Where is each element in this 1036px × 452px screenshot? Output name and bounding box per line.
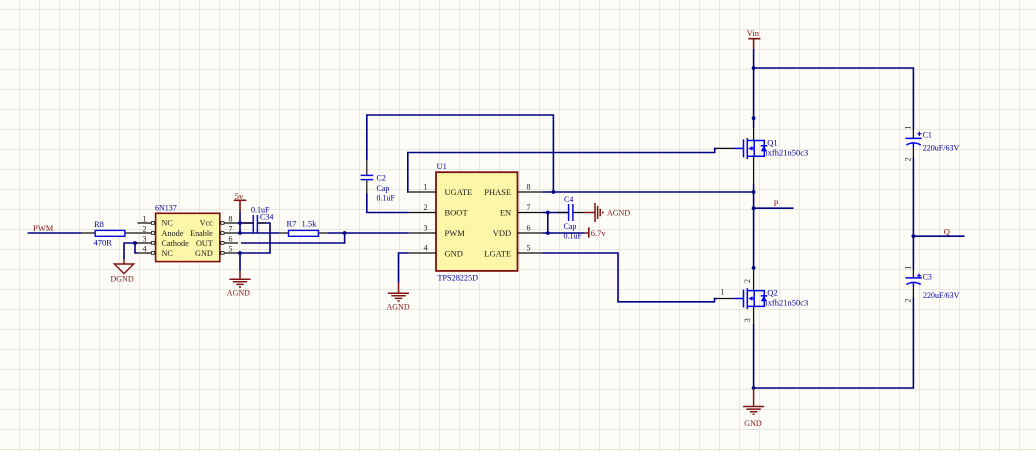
svg-text:6: 6 — [229, 235, 233, 244]
capacitor C1 pin 1 — [903, 126, 913, 139]
junction 5v/Vcc — [238, 221, 242, 225]
optocoupler 6N137 — [155, 203, 220, 261]
wire 5v rail to Vcc and Enable — [239, 212, 241, 234]
transistor Q1 ixfh21n50c3 — [734, 137, 808, 159]
U1 pin 1 UGATE — [409, 182, 473, 197]
resistor R7 — [279, 219, 327, 237]
svg-text:Cap: Cap — [377, 184, 390, 193]
junction phase/P — [752, 206, 756, 210]
transistor Q2 gate pin stub — [717, 288, 735, 299]
wire Vin rail — [754, 49, 914, 130]
wire VDD row to 6.7v port — [543, 232, 585, 234]
svg-text:NC: NC — [162, 249, 174, 258]
junction Vin split — [752, 66, 756, 70]
svg-text:470R: 470R — [94, 237, 113, 247]
svg-text:VDD: VDD — [493, 228, 511, 238]
U1 pin 5 LGATE — [484, 243, 542, 258]
power port 6.7v — [585, 227, 607, 238]
svg-text:U1: U1 — [437, 161, 447, 171]
svg-text:GND: GND — [195, 249, 213, 258]
junction PHASE/C2 — [552, 190, 556, 194]
svg-text:8: 8 — [229, 215, 233, 224]
svg-text:2: 2 — [743, 279, 752, 283]
capacitor C3 220uF/63V — [905, 272, 959, 300]
wire ground rail to C3 — [754, 298, 914, 389]
wire Q stub — [913, 235, 964, 237]
ground AGND (rotated, at C4) — [584, 203, 630, 222]
transistor Q1 pin 2 drain stub — [753, 128, 755, 141]
6N137 pin 3 Cathode — [138, 235, 190, 248]
svg-text:UGATE: UGATE — [445, 187, 473, 197]
net label Q — [944, 226, 950, 236]
svg-text:LGATE: LGATE — [484, 249, 511, 259]
svg-text:ixfh21n50c3: ixfh21n50c3 — [765, 148, 808, 158]
ground DGND — [111, 259, 134, 284]
wire C2 top to PHASE node — [367, 115, 554, 192]
junction R7 output — [343, 231, 347, 235]
power port 5v — [234, 191, 247, 212]
U1 pin 2 BOOT — [409, 203, 469, 218]
power port Vin — [747, 28, 761, 49]
junction phase/Q2 drain — [752, 266, 756, 270]
svg-text:NC: NC — [162, 219, 174, 228]
svg-text:Vcc: Vcc — [200, 219, 214, 228]
svg-text:220uF/63V: 220uF/63V — [923, 291, 960, 300]
wire C1 to C3 column — [912, 158, 914, 270]
svg-text:R8: R8 — [94, 219, 104, 229]
svg-text:PWM: PWM — [445, 228, 466, 238]
junction GND pin node — [238, 251, 242, 255]
capacitor C34 — [244, 206, 273, 234]
capacitor C4 — [557, 195, 584, 241]
wire Q2 source to ground rail — [753, 324, 755, 388]
svg-text:PWM: PWM — [33, 223, 54, 233]
wire GND pin to AGND — [239, 253, 241, 271]
svg-text:OUT: OUT — [196, 239, 213, 248]
svg-text:2: 2 — [143, 225, 147, 234]
wire EN row to C4 — [543, 212, 569, 214]
svg-text:P: P — [774, 198, 779, 208]
ground GND — [743, 388, 764, 428]
ground AGND (left) — [227, 271, 251, 298]
U1 pin 6 VDD — [493, 223, 543, 238]
svg-text:C1: C1 — [923, 131, 932, 140]
svg-text:Cap: Cap — [564, 222, 577, 231]
svg-text:C3: C3 — [923, 272, 932, 281]
svg-text:AGND: AGND — [607, 208, 630, 217]
junction Q1 drain — [752, 116, 756, 120]
transistor Q2 ixfh21n50c3 — [734, 287, 808, 309]
junction ground rail — [752, 386, 756, 390]
svg-text:PHASE: PHASE — [484, 187, 511, 197]
wire LGATE to Q2 gate — [543, 253, 717, 302]
svg-text:ixfh21n50c3: ixfh21n50c3 — [765, 298, 808, 308]
resistor R8 — [82, 219, 138, 247]
transistor Q2 pin 3 source stub — [743, 306, 754, 324]
U1 pin 7 EN — [500, 203, 543, 218]
6N137 pin 6 OUT — [196, 235, 238, 248]
capacitor C1 220uF/63V — [905, 131, 959, 153]
svg-text:Anode: Anode — [162, 229, 184, 238]
svg-text:0.1uF: 0.1uF — [377, 193, 396, 202]
svg-text:GND: GND — [744, 419, 762, 428]
U1 pin 3 PWM — [409, 223, 466, 238]
svg-text:DGND: DGND — [111, 275, 134, 284]
svg-text:1.5k: 1.5k — [302, 219, 318, 229]
svg-text:3: 3 — [143, 235, 147, 244]
svg-text:2: 2 — [903, 299, 912, 303]
wire C34 return to GND pin — [238, 223, 270, 253]
svg-text:220uF/63V: 220uF/63V — [923, 144, 960, 153]
capacitor C2 — [361, 160, 396, 202]
wire R7 to U1 PWM pin — [328, 232, 409, 234]
net label PWM — [33, 223, 54, 233]
6N137 pin 5 GND — [195, 245, 238, 259]
svg-text:Q: Q — [944, 226, 950, 236]
wire Vcc row to C34 — [238, 222, 253, 224]
junction cathode node — [133, 241, 137, 245]
svg-text:1: 1 — [721, 288, 725, 297]
svg-text:AGND: AGND — [387, 302, 410, 311]
6N137 pin 7 Enable — [190, 225, 238, 238]
U1 pin 4 GND — [409, 243, 463, 258]
svg-text:5: 5 — [527, 243, 531, 252]
svg-text:7: 7 — [527, 203, 531, 212]
wire OUT to R7 output node — [241, 233, 345, 243]
ground AGND (under U1) — [387, 283, 410, 312]
6N137 pin 4 NC — [138, 245, 174, 259]
junction Q tap — [912, 234, 916, 238]
svg-text:5: 5 — [229, 245, 233, 254]
net label P — [774, 198, 779, 208]
transistor Q1 pin 3 source stub — [753, 156, 755, 184]
wire cathode to DGND node — [124, 243, 138, 259]
capacitor C3 pin 2 — [903, 287, 913, 303]
svg-text:1: 1 — [143, 215, 147, 224]
6N137 pin 2 Anode — [138, 225, 184, 238]
transistor Q1 gate pin stub — [717, 147, 735, 149]
svg-text:4: 4 — [424, 243, 428, 252]
svg-text:8: 8 — [527, 182, 531, 191]
junction VDD tie — [546, 231, 550, 235]
svg-text:C4: C4 — [564, 195, 573, 204]
svg-text:R7: R7 — [287, 219, 297, 229]
svg-text:Q2: Q2 — [767, 287, 777, 297]
svg-text:EN: EN — [500, 208, 511, 218]
svg-text:Q1: Q1 — [767, 137, 777, 147]
wire P stub — [754, 207, 794, 209]
wire PHASE row to phase column — [543, 191, 754, 193]
svg-text:TPS28225D: TPS28225D — [438, 274, 479, 283]
wire UGATE to Q1 gate — [408, 148, 717, 192]
svg-text:3: 3 — [424, 223, 428, 232]
wire U1 GND to AGND — [399, 253, 409, 283]
wire phase column — [753, 184, 755, 269]
svg-text:6.7v: 6.7v — [591, 228, 607, 238]
svg-text:7: 7 — [229, 225, 233, 234]
wire Enable row to R7 — [238, 232, 279, 234]
svg-text:Cathode: Cathode — [162, 239, 190, 248]
svg-text:Enable: Enable — [190, 229, 213, 238]
transistor Q2 pin 2 drain stub — [743, 269, 753, 291]
svg-text:1: 1 — [903, 126, 912, 130]
svg-text:BOOT: BOOT — [445, 208, 469, 218]
wire PWM input — [28, 232, 82, 234]
junction phase/PHASE — [752, 190, 756, 194]
svg-text:GND: GND — [445, 249, 463, 259]
svg-text:1: 1 — [903, 266, 912, 270]
svg-text:5v: 5v — [235, 191, 244, 201]
svg-text:6: 6 — [527, 223, 531, 232]
svg-text:C2: C2 — [377, 174, 386, 183]
6N137 pin 1 NC — [138, 215, 174, 228]
svg-text:6N137: 6N137 — [155, 203, 177, 212]
svg-text:C34: C34 — [260, 213, 273, 222]
svg-text:2: 2 — [424, 203, 428, 212]
svg-text:1: 1 — [424, 182, 428, 191]
junction 5v/Enable — [238, 231, 242, 235]
svg-text:2: 2 — [903, 157, 912, 161]
svg-text:AGND: AGND — [227, 288, 250, 297]
wire EN-VDD tie — [547, 213, 549, 234]
capacitor C3 pin 1 — [903, 266, 913, 278]
op-amp driver U1 TPS28225D body — [436, 161, 518, 282]
wire C2 bottom to BOOT — [367, 194, 409, 213]
6N137 pin 8 Vcc — [200, 215, 238, 228]
svg-text:Vin: Vin — [747, 28, 760, 38]
capacitor C1 pin 2 — [903, 148, 913, 162]
U1 pin 8 PHASE — [484, 182, 542, 197]
junction EN tie — [546, 211, 550, 215]
svg-text:4: 4 — [143, 245, 147, 254]
svg-text:3: 3 — [743, 318, 752, 322]
